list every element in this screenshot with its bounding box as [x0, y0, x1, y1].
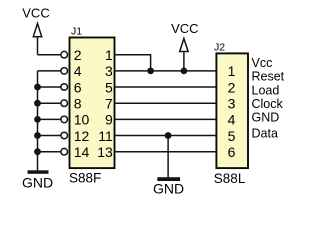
- connector J1 box: [70, 38, 115, 169]
- svg-text:S88F: S88F: [69, 170, 101, 185]
- junction bus / pin 8: [34, 100, 41, 107]
- svg-text:2: 2: [74, 47, 82, 63]
- wire J1 pin 13 to J2 pin 6 (Data): [115, 151, 217, 153]
- svg-text:Clock: Clock: [252, 97, 284, 111]
- svg-text:7: 7: [105, 96, 113, 112]
- svg-text:Reset: Reset: [252, 70, 285, 84]
- svg-text:J2: J2: [214, 42, 225, 54]
- svg-text:6: 6: [228, 144, 236, 160]
- svg-text:GND: GND: [22, 175, 53, 191]
- svg-text:4: 4: [74, 63, 82, 79]
- svg-text:9: 9: [105, 112, 113, 128]
- wire bus to J1 pin 6: [38, 86, 62, 88]
- svg-text:8: 8: [74, 96, 82, 112]
- J1 pin 12 bubble: [61, 132, 68, 139]
- svg-text:4: 4: [228, 112, 236, 128]
- wire bus to J1 pin 10: [38, 118, 62, 120]
- svg-text:12: 12: [74, 128, 90, 144]
- GND bus (left vertical): [37, 71, 39, 171]
- svg-text:1: 1: [228, 63, 236, 79]
- J1 pin 8 bubble: [61, 100, 68, 107]
- svg-text:Data: Data: [252, 127, 278, 141]
- svg-text:2: 2: [228, 79, 236, 95]
- svg-text:S88L: S88L: [214, 171, 246, 186]
- wire J1 pin 1 to Vcc net: [115, 55, 151, 71]
- svg-text:6: 6: [74, 79, 82, 95]
- ground symbol (bottom left): [28, 170, 49, 174]
- J1 pin 14 bubble: [61, 148, 68, 155]
- svg-text:11: 11: [98, 128, 113, 144]
- svg-text:1: 1: [105, 47, 113, 63]
- svg-text:5: 5: [228, 128, 236, 144]
- svg-text:3: 3: [228, 96, 236, 112]
- junction bus / pin 10: [34, 116, 41, 123]
- wire J1 pin 11 to J2 pin 5 (GND): [115, 135, 217, 137]
- svg-text:5: 5: [105, 79, 113, 95]
- svg-text:14: 14: [74, 144, 90, 160]
- junction bus / pin 12: [34, 132, 41, 139]
- ground symbol (bottom middle): [157, 177, 180, 181]
- svg-text:VCC: VCC: [22, 6, 49, 21]
- svg-text:13: 13: [97, 144, 113, 160]
- wire VCC to J1 pin 2: [38, 54, 62, 56]
- wire bus to J1 pin 4: [38, 70, 62, 72]
- junction bus / pin 6: [34, 84, 41, 91]
- wire bus to J1 pin 8: [38, 102, 62, 104]
- connector J2 box: [216, 53, 248, 168]
- J1 pin 6 bubble: [61, 84, 68, 91]
- power symbol VCC (top left): [33, 24, 41, 55]
- svg-text:J1: J1: [71, 26, 82, 38]
- wire bus to J1 pin 12: [38, 135, 62, 137]
- svg-text:Load: Load: [252, 83, 280, 97]
- wire J1 pin 9 to J2 pin 4 (Clock): [115, 118, 217, 120]
- svg-text:VCC: VCC: [171, 21, 198, 36]
- junction VCC stem / Vcc row: [181, 68, 188, 75]
- J1 pin 2 bubble: [61, 51, 68, 58]
- J1 pin 4 bubble: [61, 68, 68, 75]
- svg-text:GND: GND: [252, 111, 280, 125]
- wire J1 pin 3 to J2 pin 1 (Vcc): [115, 70, 217, 72]
- svg-text:Vcc: Vcc: [252, 56, 273, 70]
- junction bus / pin 14: [34, 148, 41, 155]
- junction pin1 drop / Vcc row: [147, 68, 154, 75]
- wire GND row to ground symbol: [167, 136, 169, 178]
- junction GND row / ground drop: [165, 132, 172, 139]
- wire J1 pin 5 to J2 pin 2 (Reset): [115, 86, 217, 88]
- svg-text:10: 10: [74, 112, 90, 128]
- wire J1 pin 7 to J2 pin 3 (Load): [115, 102, 217, 104]
- wire bus to J1 pin 14: [38, 151, 62, 153]
- svg-text:GND: GND: [153, 180, 184, 196]
- svg-text:3: 3: [105, 63, 113, 79]
- J1 pin 10 bubble: [61, 116, 68, 123]
- power symbol VCC (middle): [180, 39, 188, 71]
